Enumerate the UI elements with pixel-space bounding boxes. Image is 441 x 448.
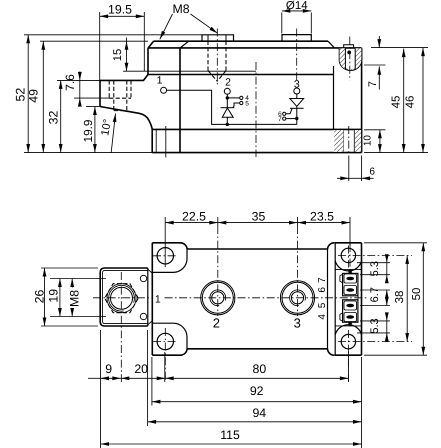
svg-text:2: 2: [225, 77, 231, 89]
svg-text:7: 7: [367, 81, 379, 87]
svg-text:1: 1: [155, 293, 161, 305]
svg-text:3: 3: [294, 315, 301, 330]
svg-text:92: 92: [250, 384, 264, 398]
svg-text:45: 45: [391, 96, 403, 109]
svg-text:94: 94: [252, 406, 266, 420]
svg-text:6: 6: [317, 287, 328, 293]
svg-text:3: 3: [294, 78, 300, 90]
svg-text:35: 35: [252, 210, 266, 224]
svg-text:2: 2: [213, 316, 220, 331]
svg-text:M8: M8: [68, 290, 82, 307]
svg-text:Ø14: Ø14: [286, 0, 308, 12]
svg-text:6.7: 6.7: [369, 287, 381, 302]
svg-text:50: 50: [411, 288, 423, 301]
svg-text:1: 1: [157, 74, 163, 86]
svg-text:7: 7: [278, 116, 282, 123]
svg-text:5: 5: [245, 100, 249, 107]
svg-text:22.5: 22.5: [182, 210, 206, 224]
svg-text:6: 6: [369, 166, 375, 177]
svg-text:23.5: 23.5: [310, 210, 334, 224]
svg-text:19.5: 19.5: [108, 2, 132, 16]
svg-text:26: 26: [32, 290, 46, 304]
svg-text:7.6: 7.6: [63, 74, 77, 91]
svg-text:10: 10: [362, 135, 373, 147]
svg-text:20: 20: [134, 362, 148, 376]
svg-text:38: 38: [394, 291, 406, 304]
svg-text:4: 4: [317, 314, 328, 320]
svg-text:7: 7: [317, 277, 328, 283]
svg-text:19.9: 19.9: [81, 120, 95, 143]
svg-text:5.3: 5.3: [369, 261, 381, 276]
svg-text:15: 15: [112, 49, 124, 61]
svg-text:5.3: 5.3: [369, 318, 381, 333]
svg-text:M8: M8: [172, 2, 189, 16]
svg-text:32: 32: [47, 111, 61, 125]
svg-text:115: 115: [220, 428, 240, 442]
svg-text:9: 9: [105, 362, 112, 376]
svg-text:5: 5: [317, 302, 328, 308]
svg-text:49: 49: [26, 89, 40, 103]
svg-text:19: 19: [46, 289, 60, 303]
svg-text:46: 46: [405, 96, 417, 109]
svg-text:80: 80: [253, 362, 267, 376]
